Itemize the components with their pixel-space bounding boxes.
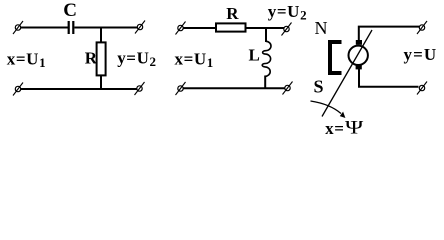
wire resistor to top-right terminal (circuit 2) <box>246 27 284 29</box>
magnet core bracket <box>330 42 342 73</box>
brush bottom (filled square) <box>356 65 362 70</box>
wire inductor to bottom wire (circuit 2) <box>264 76 266 90</box>
rotor circle (generator) <box>349 46 368 65</box>
wire rotor bottom to bottom-right terminal <box>359 69 419 87</box>
svg-text:y=U: y=U <box>404 45 438 64</box>
terminal top-left (circuit 2) <box>176 22 186 35</box>
wire rotor top to top-right terminal <box>359 27 419 41</box>
terminal bottom-left (circuit 1) <box>13 83 23 96</box>
svg-text:y=U2: y=U2 <box>117 48 156 68</box>
inductor L <box>262 41 271 76</box>
terminal bottom-right (circuit 3) <box>417 82 427 95</box>
rotation arrowhead <box>340 112 346 118</box>
terminal top-right (circuit 1) <box>135 21 145 34</box>
wire top-left to capacitor <box>21 27 68 29</box>
svg-text:L: L <box>249 46 260 65</box>
wire resistor to bottom wire <box>100 75 102 90</box>
svg-text:S: S <box>314 76 324 96</box>
svg-text:x=: x= <box>325 119 344 138</box>
wire junction down to resistor R <box>100 28 102 44</box>
wire capacitor to top-right terminal <box>74 27 137 29</box>
terminal top-right (circuit 2) <box>282 23 292 36</box>
svg-text:R: R <box>85 49 98 68</box>
brush top (filled square) <box>356 40 362 45</box>
wire junction down to inductor (circuit 2) <box>265 28 267 42</box>
svg-text:C: C <box>63 0 77 21</box>
svg-text:y=U2: y=U2 <box>268 2 307 22</box>
bottom wire (circuit 1) <box>21 88 137 90</box>
svg-text:N: N <box>315 18 328 38</box>
shaft (diagonal axis line) <box>322 30 372 117</box>
resistor R (vertical) <box>97 42 106 75</box>
capacitor C <box>69 21 74 34</box>
svg-text:x=U1: x=U1 <box>175 50 214 70</box>
bottom wire (circuit 2) <box>183 87 285 89</box>
svg-text:Ψ: Ψ <box>345 116 364 138</box>
svg-text:R: R <box>226 4 239 23</box>
terminal top-right (circuit 3) <box>417 21 427 34</box>
resistor R (horizontal, circuit 2) <box>216 23 246 31</box>
terminal bottom-left (circuit 2) <box>176 82 186 95</box>
svg-text:x=U1: x=U1 <box>7 50 46 70</box>
terminal bottom-right (circuit 1) <box>135 82 145 95</box>
wire to resistor (circuit 2) <box>183 27 216 29</box>
terminal top-left (circuit 1) <box>13 21 23 34</box>
terminal bottom-right (circuit 2) <box>283 82 293 95</box>
rotation arrow (curved) <box>311 101 342 114</box>
